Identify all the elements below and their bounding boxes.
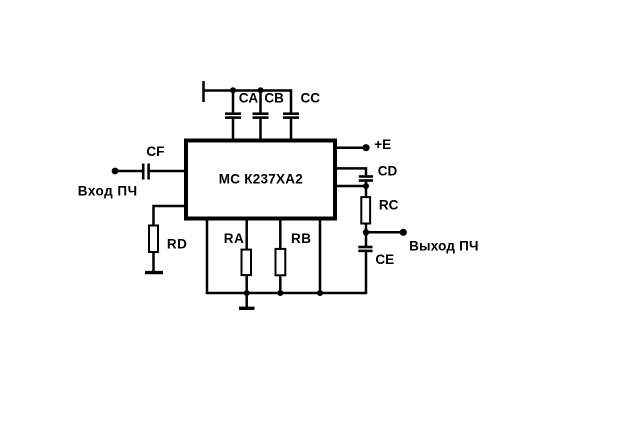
capacitor CF: [143, 164, 148, 180]
node pin4-bus: [317, 290, 323, 296]
node output terminal: [400, 229, 407, 236]
input terminal node: [112, 168, 119, 175]
svg-text:RA: RA: [224, 231, 245, 246]
svg-text:CB: CB: [264, 91, 284, 106]
wire top horizontal: [203, 89, 292, 92]
svg-text:CA: CA: [239, 91, 259, 106]
node RB-bus: [277, 290, 283, 296]
IC U1 box: [186, 141, 335, 219]
svg-text:CF: CF: [146, 144, 164, 159]
node +E terminal: [362, 144, 369, 151]
wire +E pin: [335, 146, 363, 149]
wire ground bus: [206, 292, 366, 295]
resistor RC: [361, 197, 370, 223]
wire IC pin to RB: [279, 218, 282, 248]
wire IC bottom pin 1: [206, 218, 209, 294]
wire RA to bus: [245, 276, 248, 294]
wire output lead: [366, 231, 400, 234]
ground RD: [145, 271, 163, 274]
wire CD bottom to RC: [365, 182, 368, 198]
wire CA top lead: [232, 91, 235, 113]
capacitor CC: [283, 114, 299, 118]
capacitor CB: [253, 114, 269, 118]
capacitor CA: [225, 114, 241, 118]
top terminal bar: [202, 81, 205, 102]
svg-text:+E: +E: [374, 137, 391, 152]
wire IC pin to RD: [154, 206, 187, 225]
svg-text:RD: RD: [167, 237, 188, 252]
node junction CA: [230, 87, 236, 93]
wire IC to CD top: [335, 168, 366, 175]
wire CE bus corner: [364, 292, 366, 295]
resistor RD: [149, 226, 158, 253]
wire CB bottom lead: [259, 119, 262, 141]
wire ground stub: [245, 293, 248, 308]
wire IC pin to RA: [245, 218, 248, 249]
node CD-RC junction: [363, 183, 369, 189]
resistor RA: [242, 250, 252, 276]
wire CF to IC: [150, 170, 187, 173]
wire CB top lead: [259, 91, 262, 113]
svg-text:CE: CE: [375, 252, 394, 267]
svg-text:МС К237ХА2: МС К237ХА2: [219, 172, 303, 187]
ground main: [239, 307, 255, 310]
node junction CB: [258, 87, 264, 93]
wire RD to ground: [152, 253, 155, 272]
wire IC bottom pin 4: [319, 218, 322, 294]
wire CC bottom lead: [290, 119, 293, 141]
wire RB to bus: [279, 276, 282, 294]
wire IC to CD bottom: [335, 185, 366, 188]
svg-text:RC: RC: [379, 198, 399, 213]
wire RC to output node: [365, 225, 368, 247]
wire input lead: [115, 170, 142, 173]
svg-text:CC: CC: [301, 91, 321, 106]
capacitor CD: [359, 177, 373, 181]
svg-text:Вход ПЧ: Вход ПЧ: [78, 183, 138, 198]
wire CE to bus: [365, 252, 368, 294]
wire CA bottom lead: [232, 119, 235, 141]
capacitor CE: [358, 247, 372, 251]
node output junction: [363, 229, 369, 235]
resistor RB: [276, 249, 286, 275]
svg-text:CD: CD: [378, 164, 398, 179]
svg-text:Выход ПЧ: Выход ПЧ: [409, 239, 479, 254]
wire CC top lead: [290, 91, 291, 113]
svg-text:RB: RB: [291, 231, 312, 246]
node RA-bus: [244, 290, 250, 296]
